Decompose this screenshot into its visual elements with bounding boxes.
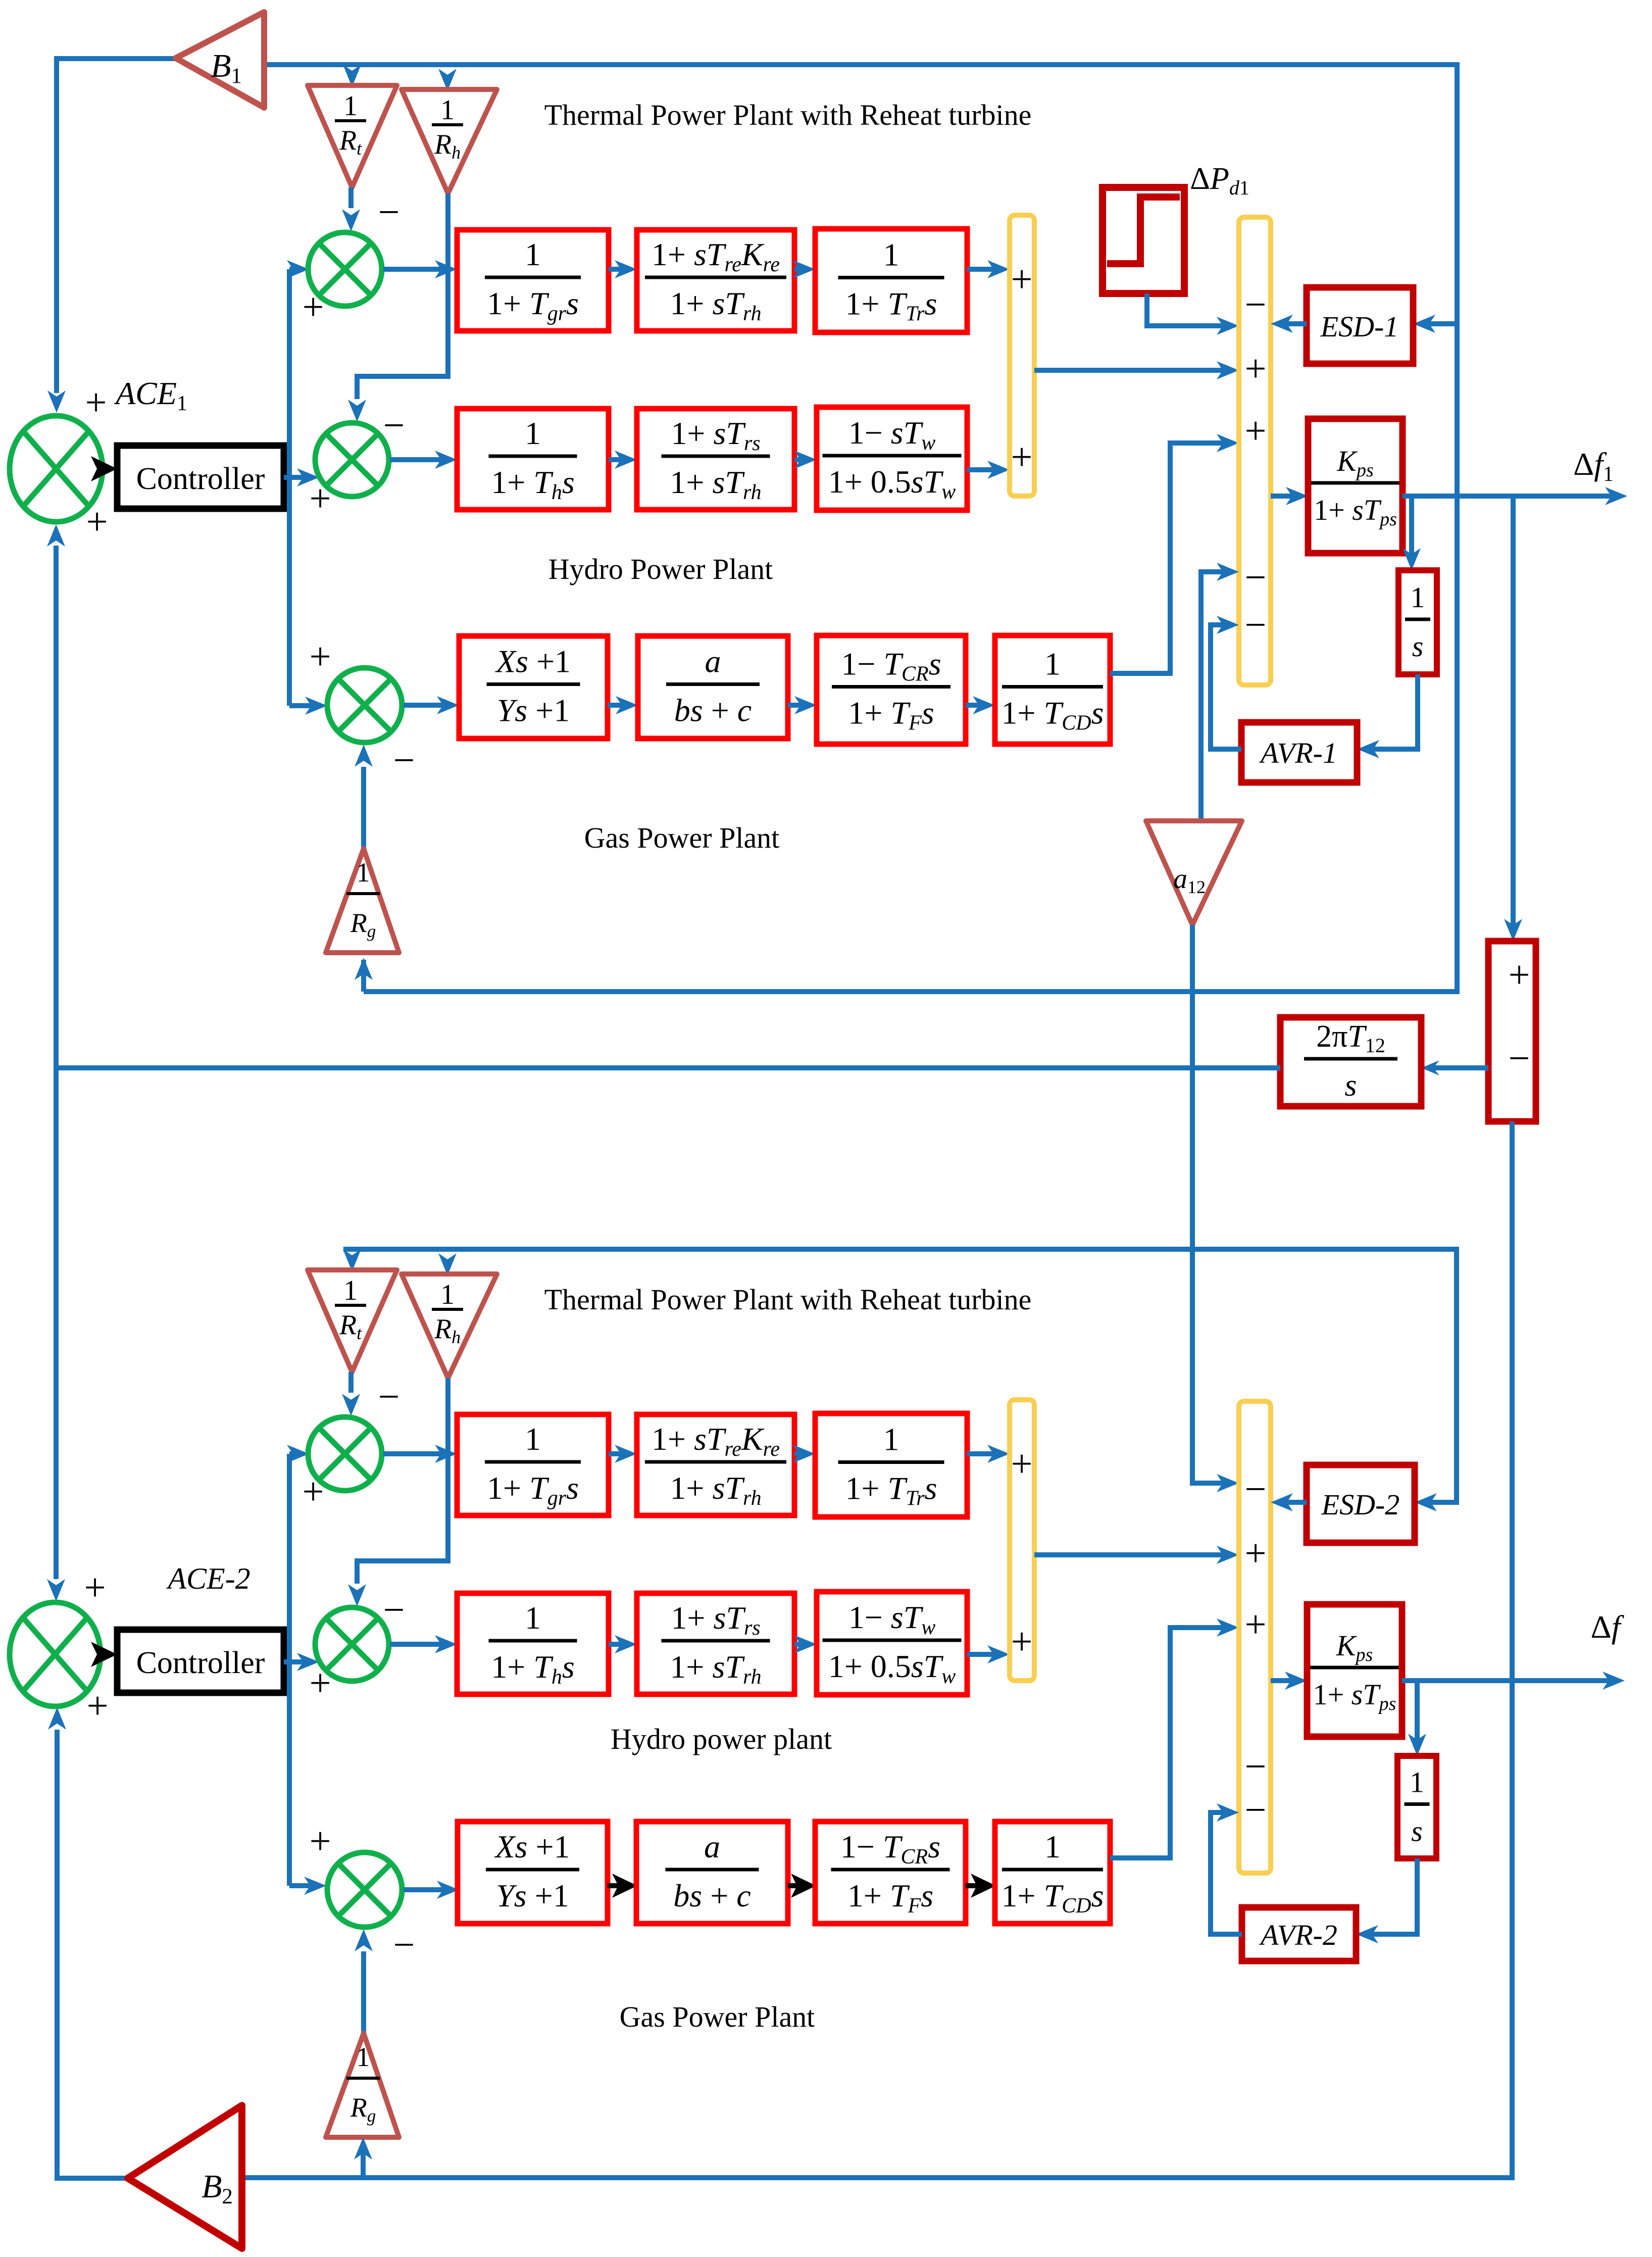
svg-text:1: 1: [1044, 1829, 1061, 1865]
block H2c (1-sTw)/(1+0.5sTw): [817, 1592, 967, 1695]
arrowhead into G1d: [973, 696, 995, 714]
arrowhead a12 path into area2 bar: [1217, 1474, 1239, 1492]
arrowhead into H2b: [615, 1635, 637, 1653]
wire a12 input from tie line and down to area2 bar: [1192, 925, 1233, 1483]
wire G2a to G2b: [608, 1883, 619, 1888]
svg-text:+: +: [1245, 410, 1267, 452]
block T1c 1/(1+TTr s): [815, 229, 967, 332]
arrowhead into 2piT12: [1421, 1060, 1439, 1075]
wire G1a to G1b: [608, 703, 631, 708]
wire into S3 area2 left: [289, 1883, 318, 1888]
summing junction S1 thermal area2: [308, 1417, 382, 1491]
svg-text:Hydro Power Plant: Hydro Power Plant: [548, 553, 773, 585]
wire 1/Rh2 down to S2 area2: [357, 1378, 448, 1584]
wire G2d output up to bar2 area2: [1110, 1628, 1233, 1858]
summing junction ACE1: [10, 416, 103, 522]
block Kps2 Kps/(1+sTps): [1307, 1604, 1402, 1737]
wire bus bar1 to bar2 area2: [1034, 1552, 1233, 1557]
svg-text:AVR-1: AVR-1: [1259, 737, 1337, 769]
svg-text:a: a: [704, 1829, 720, 1865]
arrowhead into H2a: [435, 1635, 457, 1653]
arrowhead AVR-1 into bar2: [1217, 616, 1239, 634]
bus bar1 area1: [1010, 215, 1034, 496]
arrowhead into T2c: [793, 1445, 815, 1463]
arrowhead into S3 area2: [304, 1877, 326, 1895]
wire branch down to 1/s1: [1409, 496, 1414, 563]
svg-text:−: −: [383, 1589, 405, 1631]
arrowhead down into S1 top: [342, 209, 360, 231]
wire T2b to T2c: [794, 1451, 809, 1456]
summing junction ACE2: [10, 1602, 101, 1706]
svg-text:−: −: [383, 404, 405, 447]
arrowhead into T1b: [615, 260, 637, 278]
wire 1/s1 to AVR-1: [1364, 674, 1418, 749]
block H1a 1/(1+Th s): [457, 409, 609, 510]
wire Delta f1 output: [1403, 494, 1619, 499]
svg-text:−: −: [1245, 556, 1267, 599]
bus bar1 area2: [1010, 1400, 1034, 1681]
svg-text:bs + c: bs + c: [674, 693, 752, 728]
arrowhead into S1 left: [287, 260, 309, 278]
wire tie-line power up into ACE1 bottom: [54, 546, 59, 1071]
svg-text:−: −: [1245, 1468, 1267, 1510]
svg-text:+: +: [310, 1820, 331, 1862]
wire B1 output to left vertical down to ACE1: [57, 59, 178, 393]
arrowhead up into S3 area2 bottom: [355, 1929, 373, 1951]
arrowhead into bar2 minus dPd1: [1217, 317, 1239, 335]
block G1b a/(bs+c): [638, 636, 788, 739]
svg-text:1+ 0.5sTw: 1+ 0.5sTw: [828, 1648, 956, 1688]
svg-text:1+ sTreKre: 1+ sTreKre: [652, 236, 780, 276]
arrowhead into S2 left: [297, 468, 319, 486]
svg-text:Ys +1: Ys +1: [496, 1878, 569, 1913]
wire T2a to T2b: [609, 1451, 630, 1456]
wire controller1 output vertical: [284, 269, 289, 706]
wire ESD-2 to bar2 area2: [1278, 1500, 1307, 1505]
wire G1d output up to bus bar2: [1110, 443, 1233, 673]
summing junction S2 hydro: [315, 423, 389, 497]
block T2c 1/(1+TTr s): [815, 1413, 967, 1517]
arrowhead down into ACE1 sum: [47, 390, 66, 413]
svg-text:−: −: [393, 1924, 415, 1966]
black arrow G2c to G2d: [971, 1874, 996, 1898]
svg-text:1: 1: [343, 90, 358, 122]
block H1b (1+sTrs)/(1+sTrh): [637, 409, 794, 510]
wire a12 output up to bar2 minus: [1201, 572, 1233, 821]
gain a12 triangle: [1146, 821, 1242, 925]
wire T1b to T1c: [794, 267, 809, 272]
wire S1 to block T1a: [383, 267, 450, 272]
svg-text:1: 1: [440, 94, 455, 126]
svg-text:+: +: [1011, 1621, 1033, 1663]
svg-text:+: +: [303, 286, 324, 328]
wire 1/Rh down to S2 top: [357, 193, 448, 399]
wire H2a to H2b: [609, 1642, 630, 1647]
block H2a 1/(1+Th s): [457, 1593, 609, 1694]
label 1/Rg: [346, 857, 380, 941]
arrowhead into T2b: [615, 1445, 637, 1463]
wire 1/Rt output into S1: [348, 187, 354, 208]
svg-text:s: s: [1411, 1815, 1423, 1848]
svg-text:Δf: Δf: [1591, 1609, 1625, 1645]
svg-text:+: +: [84, 1566, 106, 1609]
block G2d 1/(1+TCDs): [995, 1822, 1110, 1924]
block Controller area1: [117, 446, 284, 509]
block T1b (1+sTreKre)/(1+sTrh): [637, 230, 794, 331]
block ESD-2: [1307, 1465, 1415, 1543]
block ESD-1: [1307, 287, 1413, 364]
wire S3 to G2a: [404, 1887, 453, 1892]
svg-text:+: +: [310, 635, 331, 678]
arrowhead into bar2 area2 gas plus: [1217, 1618, 1239, 1637]
svg-text:Controller: Controller: [136, 1646, 265, 1680]
wire into S1 left: [289, 267, 301, 272]
arrowhead into G1b: [616, 696, 638, 714]
svg-text:−: −: [393, 739, 415, 781]
svg-text:+: +: [1245, 1532, 1267, 1575]
wire into S1 area2 left: [289, 1451, 301, 1456]
wire 1/Rt2 output into S1 area2: [348, 1372, 354, 1393]
wire G1c to G1d: [966, 703, 988, 708]
block G2b a/(bs+c): [636, 1822, 788, 1924]
block AVR-2: [1242, 1907, 1356, 1961]
svg-text:Xs +1: Xs +1: [494, 644, 571, 679]
wire T2c to bus bar1 area2: [967, 1451, 1003, 1456]
arrowhead down into ACE2 top: [47, 1579, 65, 1601]
block 2piT12/s: [1280, 1017, 1421, 1106]
arrowhead AVR-2 into bar2: [1217, 1803, 1239, 1822]
arrowhead into 1/s1: [1403, 548, 1421, 570]
svg-text:1: 1: [357, 857, 370, 888]
svg-text:AVR-2: AVR-2: [1259, 1919, 1337, 1951]
gain 1/Rg triangle area2: [326, 2033, 399, 2137]
black arrow G2b to G2c: [791, 1874, 816, 1898]
svg-text:+: +: [1011, 1443, 1033, 1485]
wire tie summer bottom to Delta f2 feedback: [244, 1121, 1512, 2178]
svg-text:1+ TFs: 1+ TFs: [847, 1878, 933, 1918]
summing bus bar2 area1: [1239, 217, 1271, 685]
wire controller2 output vertical: [284, 1454, 289, 1886]
arrowhead down into 1/Rh area2: [438, 1253, 457, 1275]
summing junction S3 gas area2: [327, 1852, 402, 1927]
wire T1c to bus bar1: [967, 267, 1003, 272]
svg-text:Ys +1: Ys +1: [497, 693, 570, 728]
gain 1/Rt triangle area2: [308, 1270, 397, 1372]
arrowhead into Kps2: [1285, 1672, 1307, 1690]
arrowhead into S1 area2: [287, 1445, 309, 1463]
wire bar2 to Kps1: [1271, 494, 1301, 499]
arrowhead into H2c: [794, 1635, 817, 1653]
wire S3 minus from 1/Rg: [361, 767, 366, 849]
wire Rg input stub: [361, 960, 366, 992]
arrowhead into G1a: [437, 696, 459, 714]
wire bar2 to Kps2: [1271, 1678, 1300, 1683]
svg-text:+: +: [310, 477, 331, 520]
arrowhead Delta f: [1603, 1672, 1625, 1690]
wire S2 to H2a: [390, 1642, 450, 1647]
wire H1b to H1c: [794, 457, 810, 462]
label 1/Rh area2: [432, 1279, 463, 1347]
block T2a 1/(1+Tgr s): [457, 1414, 609, 1515]
wire S3 to block G1a: [404, 703, 453, 708]
wire dPd1 to bar2 minus: [1147, 293, 1233, 326]
label 1/Rh: [432, 94, 463, 163]
wire into S3 left: [289, 703, 319, 708]
wire T1a to T1b: [609, 267, 630, 272]
svg-text:Hydro power plant: Hydro power plant: [611, 1723, 832, 1755]
arrowhead into S3 left: [305, 697, 327, 715]
load step symbol dPd1: [1103, 187, 1184, 293]
svg-text:a: a: [705, 644, 721, 679]
svg-text:bs + c: bs + c: [673, 1878, 750, 1913]
arrowhead into T2a: [435, 1445, 457, 1463]
gain 1/Rg triangle: [326, 849, 399, 953]
block Controller area2: [117, 1630, 284, 1693]
arrowhead into H1a: [435, 451, 457, 469]
wire S2 to block H1a: [390, 457, 450, 462]
wire bus bar1 to bar2: [1034, 368, 1233, 373]
wire top feedback line area2: [343, 1249, 1457, 1502]
svg-text:1: 1: [883, 237, 899, 273]
arrowhead into bar2 area2 plus row2: [1217, 1546, 1239, 1564]
block Kps1 Kps/(1+sTps): [1308, 419, 1403, 553]
arrowhead into T1c: [793, 260, 815, 278]
arrowhead up into 1/Rg base: [355, 958, 373, 980]
wire G2c to G2d: [966, 1883, 977, 1888]
arrowhead into bus bar1 thermal: [987, 260, 1010, 278]
wire H2c to bus bar1 area2: [967, 1652, 1003, 1657]
arrowhead into T1a: [435, 260, 457, 278]
arrowhead up into S3 bottom: [355, 745, 373, 767]
arrowhead into AVR-1: [1357, 740, 1379, 758]
wire Rg2 input stub: [361, 2144, 366, 2178]
block T2b (1+sTreKre)/(1+sTrh): [637, 1414, 794, 1515]
svg-text:1: 1: [525, 1600, 541, 1636]
block 1/s area2: [1397, 1756, 1436, 1858]
svg-text:1: 1: [883, 1421, 899, 1457]
arrowhead down into S2 area2 top: [348, 1584, 366, 1606]
wire Delta f output: [1402, 1678, 1616, 1683]
arrowhead into G1c: [794, 696, 817, 714]
label 1/Rt: [335, 90, 366, 159]
svg-text:1: 1: [440, 1279, 455, 1310]
block T1a 1/(1+Tgr s): [457, 230, 609, 331]
svg-text:−: −: [1245, 604, 1267, 646]
svg-text:+: +: [1245, 1603, 1267, 1646]
svg-text:+: +: [1245, 348, 1267, 390]
wire top feedback line area1 (B1 to right vertical down to Rg line): [264, 65, 1457, 992]
arrowhead down into S2 top: [348, 400, 366, 422]
block G1d 1/(1+TCDs): [995, 635, 1110, 744]
svg-text:−: −: [1245, 1789, 1267, 1831]
arrowhead into bus bar1 area2 thermal: [987, 1445, 1010, 1463]
svg-text:Gas Power Plant: Gas Power Plant: [584, 821, 780, 854]
wire AVR-1 to bar2 minus: [1211, 625, 1241, 749]
block 1/s area1: [1398, 570, 1437, 674]
arrowhead into H1b: [615, 451, 637, 469]
svg-text:+: +: [303, 1470, 324, 1513]
svg-text:1: 1: [1044, 646, 1061, 682]
block AVR-1: [1241, 722, 1357, 782]
wire branch down to 1/s2: [1415, 1681, 1420, 1749]
svg-text:1+ sTreKre: 1+ sTreKre: [652, 1421, 780, 1461]
wire G2b to G2c: [788, 1883, 797, 1888]
svg-text:+: +: [1011, 258, 1033, 301]
wire right vertical to ESD-1: [1420, 321, 1457, 326]
label 1/Rg area2: [346, 2042, 380, 2126]
block H2b (1+sTrs)/(1+sTrh): [637, 1593, 794, 1694]
wire H2b to H2c: [794, 1642, 810, 1647]
wire S3 area2 minus from 1/Rg2: [361, 1951, 366, 2033]
arrowhead into ESD-2 right: [1415, 1493, 1437, 1511]
block H1c (1-sTw)/(1+0.5sTw): [817, 407, 967, 510]
svg-text:+: +: [87, 1685, 109, 1727]
wire B2 output to left vertical up to ACE2: [57, 1730, 130, 2178]
wire branch down to tie summer: [1511, 496, 1516, 934]
arrowhead into AVR-2: [1356, 1925, 1378, 1943]
arrowhead into bar2 gas plus: [1217, 434, 1239, 452]
svg-text:1+ Ths: 1+ Ths: [491, 1649, 575, 1689]
wire 1/s2 to AVR-2: [1363, 1858, 1417, 1934]
wire tie summer to 2piT12 block: [1429, 1065, 1488, 1070]
svg-text:1: 1: [525, 415, 541, 451]
arrowhead up into ACE1 bottom: [47, 524, 65, 547]
gain B1 triangle: [176, 12, 264, 108]
arrowhead up into ACE2 bottom: [48, 1707, 66, 1730]
black arrow G2a to G2b: [612, 1874, 637, 1898]
svg-text:+: +: [1509, 954, 1530, 996]
black arrow ACE1 to Controller: [91, 456, 117, 481]
svg-text:Controller: Controller: [136, 462, 265, 496]
arrowhead into bar2 plus row2: [1217, 361, 1239, 379]
block G1a (Xs+1)/(Ys+1): [459, 636, 608, 739]
gain 1/Rh triangle area2: [402, 1274, 497, 1378]
svg-text:ACE-2: ACE-2: [166, 1562, 250, 1595]
svg-text:s: s: [1344, 1068, 1357, 1103]
gain 1/Rt triangle: [308, 85, 397, 187]
svg-text:+: +: [86, 501, 108, 543]
arrowhead down into 1/Rt: [343, 65, 361, 87]
svg-text:ACE1: ACE1: [114, 375, 187, 415]
wire S1 to T2a: [383, 1451, 450, 1456]
block tie summer (+/-): [1488, 941, 1536, 1121]
svg-text:ESD-1: ESD-1: [1320, 310, 1399, 343]
arrowhead up into 1/Rg area2 base: [354, 2137, 372, 2160]
arrowhead into S2 area2: [297, 1653, 319, 1671]
svg-text:1: 1: [1411, 581, 1425, 614]
svg-text:Gas Power Plant: Gas Power Plant: [620, 2000, 815, 2033]
svg-text:1+ TFs: 1+ TFs: [848, 695, 934, 735]
arrowhead down into 1/Rt area2: [343, 1249, 361, 1271]
wire H1a to H1b: [609, 457, 630, 462]
wire H1c to bus bar1: [967, 467, 1003, 472]
svg-text:Xs +1: Xs +1: [493, 1829, 570, 1865]
wire into S2 left: [289, 475, 313, 480]
svg-text:Thermal Power Plant with Rehea: Thermal Power Plant with Reheat turbine: [544, 99, 1032, 131]
svg-text:−: −: [378, 191, 400, 233]
black arrow ACE2 to Controller2: [91, 1642, 117, 1667]
block G1c (1-TCRs)/(1+TFs): [817, 635, 966, 744]
svg-text:+: +: [310, 1662, 331, 1704]
svg-text:1: 1: [357, 2042, 370, 2072]
arrowhead ESD-2 into bar2: [1271, 1493, 1293, 1511]
wire G1b to G1c: [788, 703, 810, 708]
svg-text:ESD-2: ESD-2: [1321, 1488, 1400, 1521]
svg-text:1: 1: [1410, 1766, 1424, 1799]
svg-text:1: 1: [525, 236, 541, 272]
gain 1/Rh triangle: [402, 89, 497, 193]
gain B2 triangle: [128, 2105, 242, 2248]
svg-text:s: s: [1412, 630, 1424, 663]
svg-text:1: 1: [343, 1275, 358, 1306]
wire tie line power to left (to ACE1/ACE2): [56, 1068, 1280, 1579]
arrowhead down into 1/Rh: [438, 69, 457, 91]
wire ESD-1 to bar2: [1278, 321, 1307, 326]
svg-text:1: 1: [525, 1421, 541, 1457]
arrowhead into bus bar1 area2 hydro: [987, 1645, 1010, 1663]
arrowhead into G2a: [437, 1881, 459, 1899]
arrowhead down into S1 area2 top: [342, 1394, 360, 1416]
wire into S2 area2 left: [289, 1659, 312, 1664]
svg-text:+: +: [85, 381, 107, 424]
svg-text:1+ Ths: 1+ Ths: [491, 464, 575, 504]
arrowhead into H1c: [794, 451, 817, 469]
svg-text:+: +: [1011, 436, 1033, 478]
summing bus bar2 area2: [1239, 1401, 1271, 1873]
arrowhead ESD-1 into bar2: [1271, 315, 1293, 333]
svg-text:1+ 0.5sTw: 1+ 0.5sTw: [828, 464, 956, 504]
summing junction S2 hydro area2: [315, 1607, 389, 1681]
wire AVR-2 to bar2 area2 minus: [1211, 1812, 1242, 1934]
arrowhead into tie summer top: [1504, 919, 1522, 941]
arrowhead Delta f1: [1605, 487, 1627, 505]
svg-text:−: −: [1245, 283, 1267, 326]
svg-text:Thermal Power Plant with Rehea: Thermal Power Plant with Reheat turbine: [544, 1283, 1032, 1316]
svg-text:−: −: [1509, 1037, 1530, 1080]
svg-text:−: −: [1245, 1745, 1267, 1788]
arrowhead into ESD-1 right: [1413, 315, 1435, 333]
arrowhead into 1/s2: [1408, 1734, 1426, 1756]
block G2c (1-TCRs)/(1+TFs): [815, 1822, 966, 1924]
arrowhead into Kps1: [1286, 487, 1308, 505]
block G2a (Xs+1)/(Ys+1): [458, 1822, 608, 1924]
arrowhead into bus bar1 hydro: [987, 461, 1010, 479]
summing junction S3 gas: [327, 668, 402, 743]
summing junction S1 thermal: [308, 232, 382, 306]
arrowhead a12 into bar2: [1217, 563, 1239, 581]
svg-text:−: −: [378, 1376, 400, 1418]
label 1/Rt area2: [335, 1275, 366, 1343]
